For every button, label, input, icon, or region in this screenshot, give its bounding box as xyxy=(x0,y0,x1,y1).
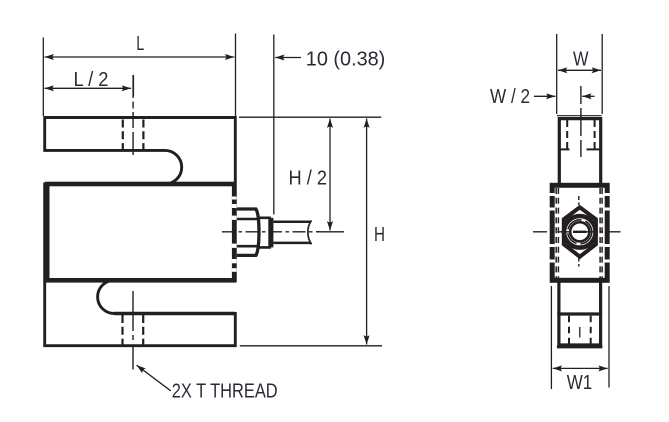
hidden thread dashes inside right border of block xyxy=(232,197,237,272)
middle block front view xyxy=(47,184,234,280)
svg-text:10 (0.38): 10 (0.38) xyxy=(306,47,386,70)
collar xyxy=(259,218,270,248)
nut facet lines xyxy=(237,218,258,221)
H top extension line xyxy=(239,116,381,118)
side view lower section xyxy=(559,282,601,345)
2X T THREAD leader line xyxy=(137,365,171,391)
W extension line right xyxy=(601,34,603,114)
W1 extension line right xyxy=(608,286,610,388)
H bottom extension line xyxy=(240,345,382,347)
cable break arc xyxy=(308,221,312,245)
nut vertical centerline ticks xyxy=(578,196,580,205)
10 (0.38) extension line xyxy=(273,35,275,215)
top flange threaded hole (hidden lines) xyxy=(123,120,144,153)
svg-text:L: L xyxy=(136,32,144,55)
centerline tick at H/2 arrow xyxy=(316,231,344,233)
L dimension line xyxy=(45,56,235,58)
side view upper section top face thin line xyxy=(557,115,602,117)
L/2 dimension line xyxy=(45,87,132,89)
side bottom hole centerline xyxy=(579,327,581,338)
bottom flange top edge xyxy=(114,312,235,316)
svg-text:H / 2: H / 2 xyxy=(289,167,328,190)
W dimension line xyxy=(558,69,601,71)
top hole centerline xyxy=(132,75,134,156)
center mark horizontal xyxy=(573,231,587,233)
W extension line left xyxy=(556,34,558,114)
svg-text:L / 2: L / 2 xyxy=(74,68,109,91)
svg-text:W1: W1 xyxy=(567,371,593,394)
side view bottom threaded hole (hidden lines) xyxy=(569,316,591,345)
divider line bottom flange xyxy=(557,312,602,315)
thread arc xyxy=(568,220,592,244)
10 (0.38) arrow xyxy=(275,57,301,59)
W/2 arrow right xyxy=(582,95,594,97)
side view top threaded hole (hidden lines) xyxy=(567,120,594,151)
bottom flange threaded hole (hidden lines) xyxy=(123,315,144,345)
cable lines xyxy=(274,221,312,224)
H dimension line xyxy=(366,119,368,345)
top hole bottom line xyxy=(560,148,570,150)
L dimension extension line left xyxy=(42,38,44,117)
white gaps on side block borders xyxy=(552,193,607,263)
connector centerline xyxy=(222,231,321,233)
L dimension extension line right xyxy=(235,34,237,117)
nut outer circle xyxy=(564,216,596,248)
collar end face thick edge xyxy=(269,218,273,248)
side view top hole centerline xyxy=(580,86,582,157)
svg-text:H: H xyxy=(374,223,385,246)
H/2 dimension line xyxy=(329,119,331,231)
hex nut front view xyxy=(564,207,596,256)
S-beam outline front view xyxy=(45,118,236,346)
hidden width lines through block xyxy=(556,188,602,279)
svg-text:W / 2: W / 2 xyxy=(490,85,530,108)
hole circle xyxy=(570,222,589,241)
svg-text:W: W xyxy=(573,48,589,71)
bottom hole centerline xyxy=(132,291,134,370)
side view middle block xyxy=(552,185,607,280)
W/2 arrow left xyxy=(534,95,555,97)
W1 dimension line xyxy=(553,367,608,369)
lower section bottom face line xyxy=(557,345,603,348)
nut horizontal centerline xyxy=(533,231,622,233)
connector hex nut side view xyxy=(237,209,259,255)
L/2 tick xyxy=(132,75,134,96)
W1 extension line left xyxy=(550,286,552,389)
side view upper section xyxy=(559,119,600,186)
svg-text:2X T THREAD: 2X T THREAD xyxy=(172,379,278,402)
